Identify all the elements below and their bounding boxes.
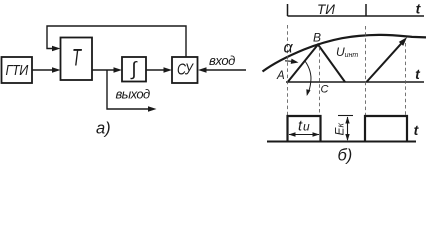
block GTI (ГТИ pulse generator): [2, 57, 33, 83]
arrow into T upper input: [52, 46, 61, 52]
block SU (СУ comparator): [172, 57, 198, 83]
pulse 2: [365, 116, 407, 142]
ramp 2 rising with arrow: [367, 43, 403, 82]
wire T to integrator with junction: [92, 69, 115, 71]
dashed line at A / pulse1 left: [287, 25, 289, 115]
tick 2: [365, 4, 367, 16]
svg-text:выход: выход: [116, 87, 151, 102]
arrow into T lower input: [52, 67, 61, 73]
dimension arrow Ek vertical: [347, 117, 349, 140]
svg-text:T: T: [72, 45, 82, 71]
svg-text:A: A: [276, 70, 285, 82]
svg-text:tи: tи: [298, 118, 310, 134]
angle arc with arrow: [305, 61, 311, 95]
dimension arrow t_u: [289, 134, 319, 136]
leader arrow from alpha to ramp: [285, 60, 292, 63]
svg-text:а): а): [96, 120, 111, 138]
wire integrator to SU: [146, 69, 165, 71]
bottom baseline axis: [267, 141, 416, 143]
feedback wire from SU top to T upper input: [47, 26, 186, 57]
svg-text:б): б): [338, 147, 353, 165]
triangle ramp 1 (A-B rise and fall): [288, 45, 345, 83]
pulse 1: [288, 116, 321, 142]
extension bar for Ek level: [338, 115, 353, 117]
middle axis: [286, 81, 424, 83]
svg-text:Eк: Eк: [333, 122, 347, 135]
envelope curve of integrator amplitude: [263, 35, 426, 72]
svg-text:ТИ: ТИ: [317, 2, 335, 17]
dashed line at ramp2 tip / pulse2 right: [405, 43, 407, 115]
tick 1: [287, 4, 289, 16]
wire GTI to T: [32, 69, 53, 71]
top time axis: [288, 15, 425, 17]
input wire vhod into SU right side: [206, 69, 246, 71]
svg-text:вход: вход: [209, 53, 235, 68]
dashed line at ramp2 start / pulse2 left: [365, 26, 367, 115]
arrow output vyhod: [148, 106, 157, 112]
arrow into integrator: [114, 67, 123, 73]
svg-text:α: α: [284, 40, 294, 57]
block T (trigger): [61, 38, 93, 81]
svg-text:СУ: СУ: [177, 60, 195, 78]
arrowhead ramp 2: [399, 37, 407, 46]
arrow into SU: [164, 67, 173, 73]
svg-text:B: B: [313, 31, 321, 45]
block integrator: [122, 57, 146, 82]
dashed line at B / pulse1 right: [319, 47, 321, 115]
svg-text:C: C: [321, 84, 329, 96]
svg-text:ГТИ: ГТИ: [6, 61, 29, 78]
arrow into SU right: [198, 67, 207, 73]
junction wire down to output: [107, 70, 149, 109]
